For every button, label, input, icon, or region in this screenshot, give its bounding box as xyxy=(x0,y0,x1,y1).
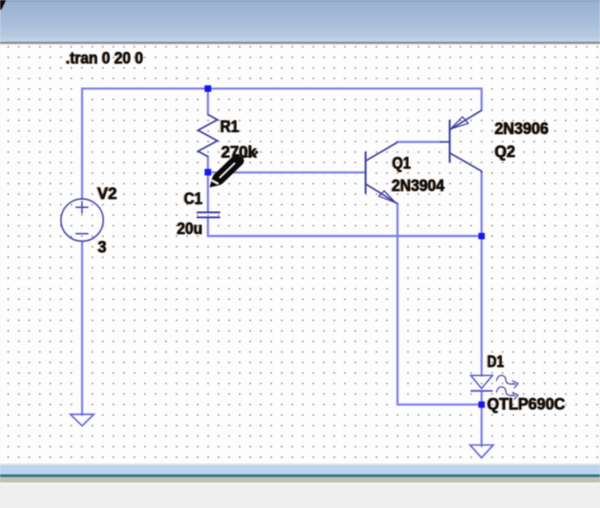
svg-text:3: 3 xyxy=(98,238,107,256)
svg-text:Q2: Q2 xyxy=(495,143,516,161)
svg-text:QTLP690C: QTLP690C xyxy=(487,396,565,414)
svg-text:20u: 20u xyxy=(177,220,203,238)
svg-text:2N3904: 2N3904 xyxy=(392,177,446,195)
svg-text:.tran 0 20 0: .tran 0 20 0 xyxy=(66,49,143,67)
svg-text:D1: D1 xyxy=(487,353,504,371)
svg-text:C1: C1 xyxy=(184,190,203,208)
svg-text:Q1: Q1 xyxy=(392,155,411,173)
svg-text:R1: R1 xyxy=(220,118,239,136)
svg-text:V2: V2 xyxy=(97,185,117,203)
svg-text:270k: 270k xyxy=(221,144,257,162)
svg-text:2N3906: 2N3906 xyxy=(495,120,549,138)
